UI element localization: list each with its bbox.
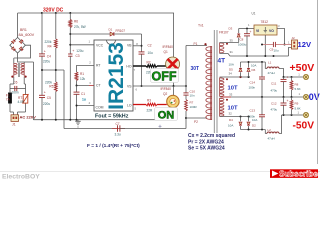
wire aux top 35 bbox=[220, 38, 239, 42]
label Fout bbox=[95, 113, 129, 119]
capacitor C7 bbox=[112, 122, 125, 137]
subscribe button bbox=[270, 169, 318, 178]
svg-text:4T: 4T bbox=[218, 58, 226, 65]
wire +50V rail bbox=[283, 72, 304, 78]
svg-text:+: + bbox=[72, 49, 74, 53]
svg-text:C11: C11 bbox=[271, 82, 277, 86]
svg-text:BR1: BR1 bbox=[20, 28, 27, 32]
svg-text:22R: 22R bbox=[147, 109, 154, 113]
svg-text:FR107: FR107 bbox=[219, 31, 229, 35]
svg-text:R1: R1 bbox=[80, 72, 84, 76]
wire J1 to filter bbox=[10, 103, 26, 115]
capacitor C1 bbox=[74, 86, 86, 120]
svg-text:J1: J1 bbox=[12, 123, 16, 127]
svg-text:L2: L2 bbox=[268, 128, 272, 132]
svg-text:470u: 470u bbox=[271, 89, 278, 93]
svg-text:Q2: Q2 bbox=[163, 92, 167, 96]
capacitor C10 bbox=[183, 86, 195, 98]
capacitor C12 bbox=[271, 97, 289, 115]
capacitor C8 bbox=[238, 29, 252, 57]
svg-text:ElectroBOY: ElectroBOY bbox=[2, 174, 40, 181]
svg-text:IRF840: IRF840 bbox=[163, 45, 174, 49]
svg-text:D4: D4 bbox=[229, 118, 233, 122]
svg-text:R8: R8 bbox=[295, 83, 299, 87]
svg-text:7812: 7812 bbox=[261, 20, 269, 24]
wire cap midpoint bbox=[41, 69, 117, 129]
svg-text:5.6K: 5.6K bbox=[295, 87, 301, 91]
svg-text:+: + bbox=[44, 91, 46, 95]
svg-text:4.0R: 4.0R bbox=[18, 100, 25, 104]
wire bridge positive bbox=[17, 13, 19, 37]
svg-text:C14: C14 bbox=[250, 81, 256, 85]
svg-text:F = 1 / (1.4*(Rt + 75)*Ct): F = 1 / (1.4*(Rt + 75)*Ct) bbox=[87, 143, 140, 149]
wire P1 bbox=[186, 46, 207, 87]
wire sec bottom 32 bbox=[220, 112, 250, 118]
wire sec top 34 bbox=[220, 72, 250, 79]
svg-text:120u: 120u bbox=[76, 49, 83, 53]
resistor R7 bbox=[185, 95, 198, 119]
label 10T lower bbox=[228, 106, 238, 112]
svg-text:10T: 10T bbox=[228, 86, 238, 92]
resistor R3 bbox=[146, 99, 157, 113]
svg-text:220u: 220u bbox=[43, 59, 50, 63]
svg-text:U1: U1 bbox=[252, 12, 256, 16]
svg-text:33: 33 bbox=[229, 93, 233, 97]
wire 320V DC rail bbox=[18, 12, 174, 14]
svg-text:C5: C5 bbox=[47, 96, 51, 100]
svg-text:10A: 10A bbox=[252, 118, 257, 122]
inductor L1 bbox=[267, 61, 284, 78]
wire VCC node bbox=[69, 33, 110, 54]
svg-text:P2: P2 bbox=[194, 120, 198, 124]
bridge rectifier BR1 bbox=[10, 28, 35, 53]
svg-text:10A: 10A bbox=[251, 64, 256, 68]
wire LO bbox=[133, 105, 167, 111]
terminal -50V out bbox=[303, 112, 308, 117]
wire 0V rail bbox=[220, 92, 304, 98]
svg-text:220u: 220u bbox=[43, 102, 50, 106]
svg-text:32: 32 bbox=[229, 112, 233, 116]
svg-text:31: 31 bbox=[230, 50, 234, 54]
resistor R2 bbox=[146, 61, 157, 75]
connector J1 bbox=[11, 115, 19, 127]
svg-text:0V: 0V bbox=[309, 92, 320, 102]
terminal 0V out bbox=[303, 94, 308, 99]
svg-text:C2: C2 bbox=[148, 44, 152, 48]
capacitor C4 bbox=[39, 13, 51, 70]
note frequency formula bbox=[87, 143, 140, 149]
svg-text:100n: 100n bbox=[12, 90, 19, 94]
svg-text:+: + bbox=[250, 30, 252, 34]
wire rect top rail bbox=[241, 61, 268, 69]
label 4T bbox=[218, 58, 226, 65]
label 30T bbox=[191, 66, 200, 72]
svg-text:C4: C4 bbox=[47, 54, 51, 58]
svg-text:OFF: OFF bbox=[152, 70, 177, 84]
thermistor RT1 bbox=[18, 94, 29, 104]
transistor Q1 bbox=[163, 13, 180, 86]
fuse F1 bbox=[6, 93, 12, 103]
svg-text:10u: 10u bbox=[274, 49, 279, 53]
svg-text:7A: 7A bbox=[6, 98, 11, 102]
diode D6 bbox=[247, 62, 256, 77]
svg-text:Cx = 2.2cm squared: Cx = 2.2cm squared bbox=[188, 133, 235, 139]
ground bbox=[75, 120, 80, 128]
svg-text:Q1: Q1 bbox=[164, 50, 168, 54]
svg-text:+: + bbox=[287, 99, 289, 103]
svg-text:R7: R7 bbox=[190, 101, 194, 105]
label +50V bbox=[290, 62, 315, 74]
svg-text:34: 34 bbox=[229, 72, 233, 76]
svg-text:COM: COM bbox=[96, 105, 104, 109]
svg-text:D6: D6 bbox=[252, 68, 256, 72]
label +12V bbox=[298, 40, 312, 49]
svg-text:ON: ON bbox=[158, 109, 175, 121]
svg-text:320V DC: 320V DC bbox=[43, 8, 64, 14]
transformer TX1 bbox=[194, 24, 229, 134]
svg-text:IR2153: IR2153 bbox=[105, 42, 128, 110]
svg-text:D1: D1 bbox=[109, 28, 113, 32]
svg-text:+: + bbox=[44, 49, 46, 53]
svg-text:5.6K: 5.6K bbox=[295, 107, 301, 111]
capacitor C14 bbox=[249, 62, 266, 97]
label -50V bbox=[293, 120, 315, 131]
svg-text:-50V: -50V bbox=[293, 120, 315, 131]
capacitor C13 bbox=[249, 97, 266, 130]
svg-text:+: + bbox=[287, 76, 289, 80]
svg-text:J2: J2 bbox=[292, 36, 296, 40]
svg-text:VO: VO bbox=[269, 29, 274, 33]
resistor R6 bbox=[69, 13, 86, 34]
label ON bbox=[155, 108, 178, 122]
svg-text:Fout = 59kHz: Fout = 59kHz bbox=[95, 113, 129, 119]
label AC 220V bbox=[20, 114, 37, 119]
wire 12V output bbox=[277, 29, 286, 46]
op-amp U2 IR2153 bbox=[89, 40, 134, 112]
capacitor C11 bbox=[271, 76, 289, 98]
svg-text:C7: C7 bbox=[116, 122, 120, 126]
diode D3 bbox=[219, 27, 240, 43]
svg-text:10u: 10u bbox=[148, 51, 154, 55]
svg-text:R5: R5 bbox=[49, 84, 53, 88]
wire VS midpoint bbox=[133, 85, 187, 92]
svg-text:30T: 30T bbox=[191, 66, 200, 72]
svg-text:10A: 10A bbox=[228, 124, 233, 128]
svg-text:C12: C12 bbox=[271, 102, 277, 106]
svg-text:47uH: 47uH bbox=[268, 137, 275, 141]
diode D4 bbox=[228, 117, 242, 130]
wire rect bottom rail bbox=[241, 129, 268, 134]
resistor R4 bbox=[45, 13, 58, 70]
note Cx Pr Se bbox=[188, 133, 235, 152]
svg-text:R9: R9 bbox=[295, 102, 299, 106]
wire 12V ground bbox=[220, 48, 292, 58]
wire COM bbox=[76, 101, 95, 107]
svg-text:10A: 10A bbox=[229, 63, 234, 67]
svg-text:D3: D3 bbox=[229, 27, 233, 31]
wire -50V rail bbox=[282, 110, 304, 116]
wire bridge AC feed bbox=[14, 45, 34, 62]
svg-text:CT: CT bbox=[96, 83, 101, 87]
svg-text:VCC: VCC bbox=[96, 44, 104, 48]
wire CT bbox=[76, 81, 95, 87]
svg-text:470u: 470u bbox=[271, 108, 278, 112]
diode D5 bbox=[229, 62, 243, 77]
label OFF bbox=[151, 69, 179, 84]
svg-text:C1: C1 bbox=[81, 92, 85, 96]
svg-text:1000u: 1000u bbox=[238, 43, 247, 47]
svg-text:P1: P1 bbox=[194, 42, 198, 46]
wire VB node bbox=[133, 34, 143, 52]
diode D1 bbox=[109, 28, 142, 36]
svg-text:8A_600V: 8A_600V bbox=[19, 33, 35, 37]
capacitor C5 bbox=[39, 70, 51, 120]
svg-text:47uH: 47uH bbox=[268, 71, 275, 75]
svg-text:C13: C13 bbox=[250, 109, 256, 113]
wire filter rung bbox=[10, 89, 26, 95]
wire bridge negative bbox=[33, 62, 35, 120]
svg-text:R6: R6 bbox=[74, 20, 78, 24]
svg-text:D5: D5 bbox=[229, 68, 233, 72]
svg-text:100R: 100R bbox=[190, 105, 198, 109]
svg-text:100n: 100n bbox=[249, 86, 256, 90]
resistor R8 bbox=[290, 77, 301, 97]
svg-text:+50V: +50V bbox=[290, 62, 315, 74]
svg-text:R4: R4 bbox=[48, 45, 52, 49]
svg-text:C3: C3 bbox=[76, 54, 80, 58]
svg-text:RT: RT bbox=[96, 63, 100, 67]
label 0V bbox=[309, 92, 320, 102]
resistor R5 bbox=[45, 70, 57, 120]
svg-text:L1: L1 bbox=[268, 61, 272, 65]
svg-text:12V: 12V bbox=[298, 40, 312, 49]
wire P2 bbox=[186, 118, 207, 124]
common-mode choke bbox=[10, 58, 27, 89]
svg-text:D2: D2 bbox=[252, 124, 256, 128]
svg-text:C8: C8 bbox=[240, 38, 244, 42]
label 320V DC bbox=[43, 8, 64, 14]
svg-text:1u: 1u bbox=[82, 97, 86, 101]
svg-text:IRF840: IRF840 bbox=[161, 87, 172, 91]
svg-text:12k: 12k bbox=[80, 77, 86, 81]
watermark ElectroBOY bbox=[2, 174, 40, 181]
capacitor C6 bbox=[12, 81, 19, 95]
diode D2 bbox=[247, 117, 257, 130]
resistor R1 bbox=[75, 61, 94, 86]
svg-text:Subscribe: Subscribe bbox=[279, 170, 318, 179]
svg-text:Se = 5X AWG24: Se = 5X AWG24 bbox=[188, 146, 225, 152]
svg-text:R2: R2 bbox=[147, 61, 151, 65]
svg-text:FR107: FR107 bbox=[116, 29, 126, 33]
svg-text:27k, 5W: 27k, 5W bbox=[74, 25, 86, 29]
svg-text:220k: 220k bbox=[45, 40, 52, 44]
capacitor C2 bbox=[139, 44, 154, 88]
transistor Q2 bbox=[161, 86, 180, 120]
connector J2 bbox=[288, 36, 298, 49]
svg-text:100n: 100n bbox=[249, 115, 256, 119]
svg-text:VI: VI bbox=[256, 29, 259, 33]
wire C7 to P2 bbox=[120, 118, 186, 129]
svg-text:3.3u: 3.3u bbox=[115, 132, 121, 136]
capacitor C9 bbox=[261, 42, 292, 53]
wire ground rail bbox=[34, 119, 174, 121]
inductor L2 bbox=[267, 115, 282, 141]
label 10T upper bbox=[228, 86, 238, 92]
svg-text:10n: 10n bbox=[190, 94, 195, 98]
terminal +50V out bbox=[303, 74, 308, 79]
regulator U1 7812 bbox=[252, 12, 281, 57]
wire HO bbox=[133, 66, 166, 72]
capacitor C3 bbox=[68, 49, 84, 120]
svg-text:R3: R3 bbox=[147, 99, 151, 103]
wire 12V input bbox=[239, 23, 254, 30]
svg-text:Tx1: Tx1 bbox=[198, 24, 204, 28]
svg-text:Pr = 2X AWG24: Pr = 2X AWG24 bbox=[188, 139, 224, 145]
svg-text:35: 35 bbox=[230, 38, 234, 42]
resistor R9 bbox=[290, 97, 301, 115]
